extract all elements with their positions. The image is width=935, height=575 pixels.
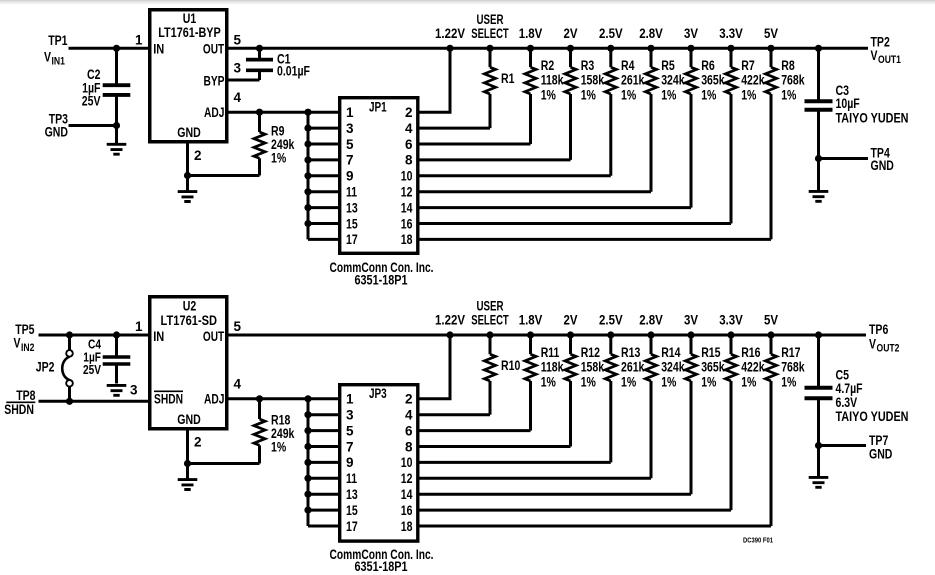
wire TP5 to U2 IN pin 1 <box>39 334 151 337</box>
svg-text:11: 11 <box>346 471 357 486</box>
svg-text:1.8V: 1.8V <box>519 313 543 328</box>
junction 1.8V tap <box>527 331 534 338</box>
capacitor C1 0.01uF between OUT and BYP <box>227 48 311 80</box>
junction 2V tap <box>567 331 574 338</box>
junction 3V tap <box>687 45 694 52</box>
svg-text:9: 9 <box>346 169 354 184</box>
node label 2V <box>564 26 578 41</box>
svg-text:R14: R14 <box>661 345 681 360</box>
resistor R16 422k 1% <box>725 335 765 510</box>
svg-text:324k: 324k <box>661 360 685 375</box>
manufacturer label JP3 <box>330 547 434 574</box>
svg-text:TP1: TP1 <box>48 33 68 48</box>
wire R13 to JP3 pin 10 <box>418 461 611 464</box>
svg-text:118k: 118k <box>541 360 564 375</box>
svg-text:SELECT: SELECT <box>471 313 509 328</box>
wire TP8 to U2 SHDN pin 3 <box>39 400 151 403</box>
junction TP7 node <box>815 442 822 449</box>
svg-text:R5: R5 <box>661 58 675 73</box>
svg-text:GND: GND <box>177 125 201 140</box>
svg-text:25V: 25V <box>83 362 101 377</box>
capacitor C5 <box>805 335 909 446</box>
svg-text:V: V <box>869 337 876 352</box>
svg-text:16: 16 <box>401 216 413 231</box>
svg-text:V: V <box>14 336 21 351</box>
wire R6 to JP1 pin 14 <box>418 206 692 209</box>
junction 2.5V tap <box>607 331 614 338</box>
junction USER SELECT tap <box>486 331 493 338</box>
svg-text:3: 3 <box>234 60 242 75</box>
svg-text:R12: R12 <box>581 345 600 360</box>
junction TP8 node <box>66 398 73 405</box>
svg-text:V: V <box>871 48 878 63</box>
junction USER SELECT tap <box>486 45 493 52</box>
note DC390 F01 <box>743 536 774 545</box>
svg-text:USER: USER <box>477 299 504 314</box>
junction C1 tap on OUT <box>256 45 263 52</box>
connector JP1 6351-18P1 <box>340 98 418 254</box>
svg-text:1%: 1% <box>661 374 676 389</box>
svg-text:R15: R15 <box>701 345 721 360</box>
junction 5V tap <box>767 331 774 338</box>
test point TP3 (GND) label <box>45 112 69 140</box>
svg-text:GND: GND <box>45 125 69 140</box>
svg-text:IN: IN <box>153 329 164 344</box>
svg-text:JP1: JP1 <box>369 99 387 114</box>
capacitor C4 1uF 25V <box>83 335 130 384</box>
svg-text:V: V <box>44 50 51 65</box>
svg-text:0.01µF: 0.01µF <box>277 64 310 79</box>
svg-text:BYP: BYP <box>204 73 225 88</box>
svg-text:1%: 1% <box>541 374 556 389</box>
svg-text:1.22V: 1.22V <box>435 313 465 328</box>
jumper JP2 <box>36 335 73 401</box>
svg-text:SHDN: SHDN <box>4 402 34 417</box>
ground symbol below C5 <box>809 446 829 488</box>
svg-text:15: 15 <box>346 503 358 518</box>
node label USER SELECT <box>471 299 509 328</box>
svg-text:2: 2 <box>405 392 413 407</box>
svg-text:2: 2 <box>194 148 202 163</box>
svg-text:6351-18P1: 6351-18P1 <box>355 559 408 574</box>
resistor R5 324k 1% <box>645 48 685 191</box>
svg-text:2.8V: 2.8V <box>639 313 663 328</box>
wire ground node to R9 <box>188 174 260 177</box>
svg-text:2V: 2V <box>564 26 578 41</box>
node label USER SELECT <box>471 12 509 41</box>
svg-text:324k: 324k <box>661 73 685 88</box>
junction TP3 ground node <box>113 122 120 129</box>
svg-text:ADJ: ADJ <box>204 392 225 407</box>
resistor R2 118k 1% <box>525 48 564 144</box>
test point TP7 (GND) label <box>869 433 893 462</box>
ground symbol below C3 <box>809 159 829 202</box>
svg-text:1%: 1% <box>271 151 286 166</box>
svg-text:SELECT: SELECT <box>471 26 509 41</box>
junction C2 input node <box>113 45 120 52</box>
ground symbol below U1 <box>178 176 198 202</box>
svg-text:768k: 768k <box>781 73 805 88</box>
wire JP3 left bus from ADJ <box>308 399 340 526</box>
resistor R15 365k 1% <box>685 335 725 494</box>
junction U2 ground node <box>184 460 191 467</box>
svg-text:158k: 158k <box>581 360 605 375</box>
svg-text:5: 5 <box>346 423 354 438</box>
node label 2.8V <box>639 26 663 41</box>
svg-text:10: 10 <box>401 169 413 184</box>
svg-text:R7: R7 <box>741 58 755 73</box>
resistor R4 261k 1% <box>605 48 645 176</box>
node label 2.5V <box>599 313 623 328</box>
svg-text:14: 14 <box>401 487 413 502</box>
svg-text:18: 18 <box>401 232 413 247</box>
wire U2 GND pin 2 <box>186 429 189 464</box>
svg-text:1%: 1% <box>581 374 596 389</box>
svg-text:1: 1 <box>135 33 143 48</box>
svg-text:ADJ: ADJ <box>204 105 225 120</box>
wire 1.22V tap to JP3 pin 2 <box>418 335 451 399</box>
wire R17 to JP3 pin 18 <box>418 525 772 528</box>
junction 2.8V tap <box>647 45 654 52</box>
svg-text:17: 17 <box>346 519 358 534</box>
svg-text:768k: 768k <box>781 360 805 375</box>
svg-text:1%: 1% <box>781 374 796 389</box>
svg-text:1%: 1% <box>541 87 556 102</box>
wire TP4 ground <box>819 157 869 160</box>
wire R14 to JP3 pin 12 <box>418 477 652 480</box>
svg-text:4: 4 <box>405 121 413 136</box>
svg-text:1%: 1% <box>661 87 676 102</box>
svg-text:TAIYO YUDEN: TAIYO YUDEN <box>836 409 909 424</box>
wire R11 to JP3 pin 6 <box>418 429 531 432</box>
junction 1.22V tap <box>446 331 453 338</box>
wire U1 ADJ pin 4 to JP1 pin 1 <box>227 111 341 114</box>
wire U1 GND pin 2 <box>186 142 189 176</box>
resistor R1 <box>484 48 514 128</box>
wire R5 to JP1 pin 12 <box>418 190 652 193</box>
svg-text:4: 4 <box>405 408 413 423</box>
svg-text:4: 4 <box>234 377 242 392</box>
svg-text:1: 1 <box>346 392 354 407</box>
svg-text:OUT: OUT <box>203 41 225 56</box>
svg-text:JP3: JP3 <box>369 386 387 401</box>
svg-text:5: 5 <box>234 319 242 334</box>
svg-text:3: 3 <box>346 408 354 423</box>
svg-text:13: 13 <box>346 487 358 502</box>
junction C3 tap <box>815 45 822 52</box>
wire TP3 to ground node <box>69 124 117 127</box>
test point TP4 (GND) label <box>871 146 895 174</box>
junctions JP3 left bus <box>304 395 311 514</box>
junction 1.22V tap <box>446 45 453 52</box>
svg-text:LT1761-SD: LT1761-SD <box>161 313 218 328</box>
svg-text:R3: R3 <box>581 58 595 73</box>
svg-text:5: 5 <box>346 137 354 152</box>
svg-text:1%: 1% <box>741 374 756 389</box>
svg-text:3: 3 <box>346 121 354 136</box>
svg-text:1%: 1% <box>781 87 796 102</box>
node label 1.22V <box>435 313 465 328</box>
junction 2V tap <box>567 45 574 52</box>
wire JP1 left bus from ADJ <box>308 112 340 239</box>
svg-text:422k: 422k <box>741 73 765 88</box>
junction R9 tap on ADJ <box>256 109 263 116</box>
svg-text:17: 17 <box>346 232 358 247</box>
resistor R17 768k 1% <box>765 335 805 526</box>
svg-text:6.3V: 6.3V <box>836 395 858 410</box>
test point TP6 (VOUT2) label <box>869 322 899 355</box>
resistor R10 <box>484 335 520 415</box>
svg-text:1: 1 <box>346 105 354 120</box>
wire R4 to JP1 pin 10 <box>418 174 611 177</box>
junction C4 input node <box>113 331 120 338</box>
node label 2V <box>564 313 578 328</box>
svg-text:3: 3 <box>130 382 138 397</box>
wire R15 to JP3 pin 14 <box>418 493 692 496</box>
svg-text:3V: 3V <box>684 26 698 41</box>
svg-text:1%: 1% <box>581 87 596 102</box>
wire U2 ADJ pin 4 to JP3 pin 1 <box>227 397 341 400</box>
junction C5 tap <box>815 331 822 338</box>
svg-text:1%: 1% <box>701 87 716 102</box>
svg-text:1.22V: 1.22V <box>435 26 465 41</box>
svg-text:6: 6 <box>405 137 413 152</box>
test point TP8 (SHDN) label <box>4 388 36 417</box>
svg-text:261k: 261k <box>621 73 645 88</box>
wire U1 OUT rail to TP2 <box>227 47 869 50</box>
svg-text:2: 2 <box>194 435 202 450</box>
svg-text:USER: USER <box>477 12 504 27</box>
resistor R8 768k 1% <box>765 48 805 239</box>
capacitor C3 <box>805 48 909 158</box>
svg-text:R1: R1 <box>501 71 515 86</box>
svg-text:JP2: JP2 <box>36 360 55 375</box>
svg-text:7: 7 <box>346 153 354 168</box>
svg-text:261k: 261k <box>621 360 645 375</box>
junctions JP1 left bus <box>304 109 311 227</box>
wire R3 to JP1 pin 8 <box>418 158 571 161</box>
junction TP4 node <box>815 155 822 162</box>
svg-text:5: 5 <box>234 32 242 47</box>
node label 3.3V <box>719 26 743 41</box>
node label 3V <box>684 313 698 328</box>
svg-text:R17: R17 <box>781 345 800 360</box>
junction 1.8V tap <box>527 45 534 52</box>
svg-text:365k: 365k <box>701 73 725 88</box>
svg-text:2.8V: 2.8V <box>639 26 663 41</box>
IC U2 LT1761-SD voltage regulator <box>130 297 242 450</box>
svg-text:U2: U2 <box>183 299 197 314</box>
capacitor C2 1uF 25V <box>82 48 131 125</box>
wire R7 to JP1 pin 16 <box>418 222 732 225</box>
wire 1.22V tap to JP1 pin 2 <box>418 48 451 112</box>
svg-text:2.5V: 2.5V <box>599 26 623 41</box>
svg-text:GND: GND <box>869 447 893 462</box>
svg-text:IN1: IN1 <box>52 56 65 68</box>
resistor R7 422k 1% <box>725 48 765 223</box>
resistor R6 365k 1% <box>685 48 725 207</box>
ground symbol below U2 <box>178 464 198 490</box>
test point TP5 (VIN2) label <box>14 322 35 354</box>
svg-text:25V: 25V <box>82 94 101 109</box>
wire R16 to JP3 pin 16 <box>418 509 732 512</box>
junction R18 tap on ADJ <box>256 395 263 402</box>
wire U2 OUT rail to TP6 <box>227 334 867 337</box>
node label 5V <box>764 26 778 41</box>
svg-text:1%: 1% <box>621 87 636 102</box>
svg-text:R2: R2 <box>541 58 555 73</box>
svg-text:8: 8 <box>405 439 413 454</box>
node label 5V <box>764 313 778 328</box>
svg-text:OUT2: OUT2 <box>877 343 900 355</box>
resistor R3 158k 1% <box>565 48 605 160</box>
svg-text:5V: 5V <box>764 313 778 328</box>
svg-text:12: 12 <box>401 185 413 200</box>
junction 3V tap <box>687 331 694 338</box>
manufacturer label JP1 <box>330 260 434 288</box>
resistor R11 118k 1% <box>525 335 564 431</box>
svg-text:3.3V: 3.3V <box>719 313 743 328</box>
IC U1 LT1761-BYP voltage regulator <box>135 10 242 163</box>
svg-text:7: 7 <box>346 439 354 454</box>
resistor R12 158k 1% <box>565 335 605 447</box>
resistor R18 249k 1% <box>254 399 295 464</box>
svg-text:10µF: 10µF <box>836 96 860 111</box>
wire R12 to JP3 pin 8 <box>418 445 571 448</box>
resistor R9 249k 1% <box>254 112 295 175</box>
svg-text:R11: R11 <box>541 345 560 360</box>
svg-text:6351-18P1: 6351-18P1 <box>355 273 408 288</box>
svg-text:1%: 1% <box>621 374 636 389</box>
svg-text:OUT: OUT <box>203 329 225 344</box>
svg-text:1.8V: 1.8V <box>519 26 543 41</box>
node label 3.3V <box>719 313 743 328</box>
wire R1 to JP1 pin 4 <box>418 127 491 130</box>
svg-text:R6: R6 <box>701 58 715 73</box>
svg-text:DC390 F01: DC390 F01 <box>743 536 774 545</box>
wire R2 to JP1 pin 6 <box>418 143 531 146</box>
svg-text:118k: 118k <box>541 73 564 88</box>
svg-text:IN2: IN2 <box>21 342 34 354</box>
node label 3V <box>684 26 698 41</box>
svg-text:SHDN: SHDN <box>154 392 183 407</box>
svg-text:2.5V: 2.5V <box>599 313 623 328</box>
svg-text:1%: 1% <box>701 374 716 389</box>
svg-text:12: 12 <box>401 471 413 486</box>
wire R10 to JP3 pin 4 <box>418 413 491 416</box>
svg-text:TP8: TP8 <box>16 388 36 403</box>
junction 2.8V tap <box>647 331 654 338</box>
svg-text:365k: 365k <box>701 360 725 375</box>
node label 1.8V <box>519 26 543 41</box>
svg-text:R16: R16 <box>741 345 761 360</box>
test point TP1 (VIN1) label <box>44 33 68 68</box>
resistor R14 324k 1% <box>645 335 685 478</box>
ground symbol below C2 <box>107 126 127 155</box>
junction JP2 top node <box>66 331 73 338</box>
svg-text:3.3V: 3.3V <box>719 26 743 41</box>
wire R8 to JP1 pin 18 <box>418 238 772 241</box>
junction 3.3V tap <box>727 45 734 52</box>
test point TP2 (VOUT1) label <box>871 34 901 66</box>
junction 2.5V tap <box>607 45 614 52</box>
node label 1.22V <box>435 26 465 41</box>
svg-text:U1: U1 <box>183 11 197 26</box>
svg-text:11: 11 <box>346 185 357 200</box>
svg-text:10: 10 <box>401 455 413 470</box>
svg-text:OUT1: OUT1 <box>878 54 901 66</box>
node label 1.8V <box>519 313 543 328</box>
svg-text:R8: R8 <box>781 58 795 73</box>
svg-text:4.7µF: 4.7µF <box>836 381 863 396</box>
svg-text:1%: 1% <box>271 440 286 455</box>
svg-text:GND: GND <box>871 158 895 173</box>
svg-text:2V: 2V <box>564 313 578 328</box>
svg-text:14: 14 <box>401 200 413 215</box>
svg-text:2: 2 <box>405 105 413 120</box>
svg-text:IN: IN <box>153 41 164 56</box>
node label 2.8V <box>639 313 663 328</box>
svg-text:3V: 3V <box>684 313 698 328</box>
svg-text:R10: R10 <box>501 358 520 373</box>
svg-text:158k: 158k <box>581 73 605 88</box>
svg-text:GND: GND <box>177 412 201 427</box>
svg-text:8: 8 <box>405 153 413 168</box>
svg-text:9: 9 <box>346 455 354 470</box>
svg-text:4: 4 <box>234 90 242 105</box>
svg-text:13: 13 <box>346 200 358 215</box>
svg-text:R4: R4 <box>621 58 635 73</box>
junction 3.3V tap <box>727 331 734 338</box>
svg-text:15: 15 <box>346 216 358 231</box>
junction 5V tap <box>767 45 774 52</box>
svg-text:LT1761-BYP: LT1761-BYP <box>158 25 221 40</box>
svg-text:18: 18 <box>401 519 413 534</box>
connector JP3 6351-18P1 <box>340 385 418 541</box>
svg-text:16: 16 <box>401 503 413 518</box>
svg-text:6: 6 <box>405 423 413 438</box>
svg-text:TP6: TP6 <box>869 322 889 337</box>
wire TP1 to U1 IN pin 1 <box>69 47 151 50</box>
junction U1 ground node <box>184 172 191 179</box>
svg-text:5V: 5V <box>764 26 778 41</box>
node label 2.5V <box>599 26 623 41</box>
svg-text:1%: 1% <box>741 87 756 102</box>
svg-text:TAIYO YUDEN: TAIYO YUDEN <box>836 111 909 126</box>
svg-text:1: 1 <box>135 319 143 334</box>
resistor R13 261k 1% <box>605 335 645 462</box>
svg-text:R13: R13 <box>621 345 641 360</box>
wire TP7 ground <box>819 444 867 447</box>
ground symbol below C4 <box>107 385 127 395</box>
wire ground node to R18 <box>188 462 260 465</box>
svg-text:422k: 422k <box>741 360 765 375</box>
